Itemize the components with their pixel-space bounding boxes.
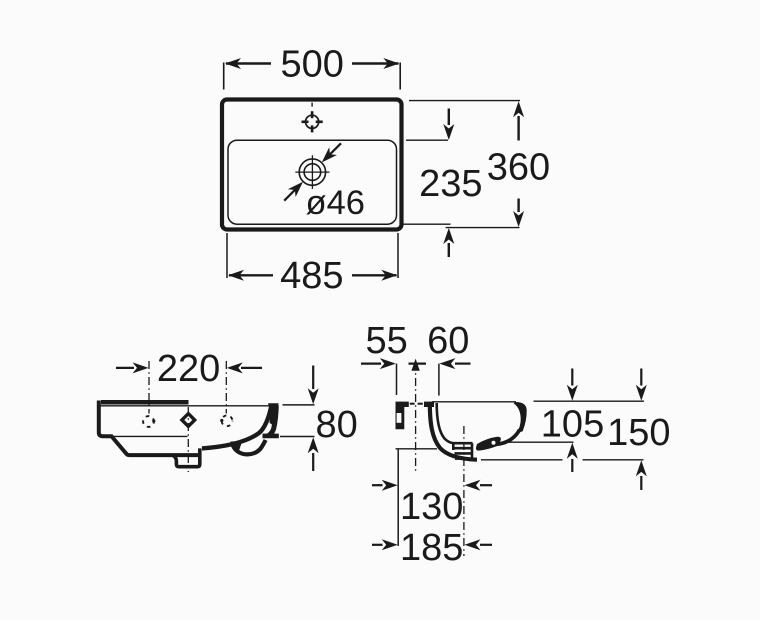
svg-text:185: 185 <box>400 527 463 569</box>
svg-text:80: 80 <box>316 404 358 446</box>
svg-text:60: 60 <box>427 320 469 362</box>
svg-text:235: 235 <box>419 163 482 205</box>
svg-text:500: 500 <box>280 44 343 86</box>
svg-text:485: 485 <box>280 255 343 297</box>
svg-text:ø46: ø46 <box>306 184 365 222</box>
svg-text:360: 360 <box>487 146 550 188</box>
svg-text:150: 150 <box>607 412 670 454</box>
svg-text:220: 220 <box>157 348 220 390</box>
svg-text:105: 105 <box>541 403 604 445</box>
svg-text:130: 130 <box>400 486 463 528</box>
svg-text:55: 55 <box>366 320 408 362</box>
